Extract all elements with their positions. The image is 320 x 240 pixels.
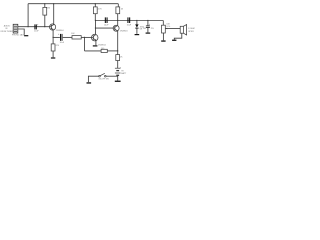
capacitor C3: [105, 17, 108, 23]
wire R6 top lead: [117, 4, 119, 7]
wire pot bottom lead: [162, 33, 164, 40]
wire pot wiper to speaker: [165, 28, 180, 30]
svg-text:+: +: [37, 24, 39, 27]
wire Q2 emitter to ground: [95, 40, 97, 45]
battery B1 9V: [115, 68, 121, 75]
wire battery to ground: [117, 76, 119, 81]
ground under C5: [146, 33, 151, 34]
ground under battery: [115, 81, 121, 82]
wire R1 top lead: [44, 4, 46, 8]
wire diode D1 top lead: [136, 21, 138, 25]
svg-text:4.7K: 4.7K: [98, 9, 103, 11]
svg-text:+: +: [120, 66, 122, 69]
junction dots: [28, 3, 149, 51]
wire emitter tap to C2: [53, 36, 60, 38]
svg-text:+: +: [149, 23, 151, 26]
svg-text:470: 470: [56, 45, 60, 47]
wire feedback drop: [84, 37, 86, 51]
ground under Q2 emitter: [93, 45, 98, 46]
svg-text:+: +: [58, 33, 60, 36]
potentiometer VR1: [162, 25, 166, 33]
resistor R7 feedback: [101, 49, 107, 52]
wire input drop from rail: [27, 4, 29, 27]
resistor R1: [43, 7, 47, 15]
svg-text:1K: 1K: [120, 56, 123, 58]
wire C5 to ground: [147, 28, 149, 33]
wire Q1 emitter column: [52, 30, 54, 44]
resistor R5: [116, 55, 120, 61]
svg-text:2N3904: 2N3904: [120, 31, 128, 33]
wire feedback horizontal left: [85, 50, 102, 52]
switch S1: [99, 73, 106, 77]
wire signal bus y=20.5: [95, 20, 163, 22]
wire R2 bottom lead: [52, 51, 54, 57]
wire R5 to battery: [117, 61, 119, 69]
wire R4 top lead: [94, 4, 96, 7]
svg-text:2N3904: 2N3904: [98, 44, 106, 46]
wire R3 to Q2 base: [81, 36, 91, 38]
svg-text:10uF: 10uF: [127, 25, 132, 27]
svg-text:10uF: 10uF: [34, 31, 39, 33]
svg-text:BATT: BATT: [121, 72, 127, 75]
capacitor C2: [60, 34, 63, 41]
svg-text:10K: 10K: [71, 33, 75, 35]
connector J1 audio input jack: [13, 24, 18, 33]
svg-text:10uF: 10uF: [104, 25, 109, 27]
transistor Q1: [50, 24, 56, 30]
svg-text:2N3904: 2N3904: [56, 30, 64, 32]
svg-text:10uF: 10uF: [60, 42, 65, 44]
capacitor C1: [34, 24, 36, 29]
wire C2 to R3: [63, 36, 72, 38]
wire V+ top rail: [28, 3, 118, 5]
ground at switch side: [87, 82, 92, 83]
svg-text:1M: 1M: [47, 7, 50, 9]
svg-text:SPKR: SPKR: [188, 31, 194, 33]
resistor R4: [93, 7, 97, 14]
capacitor C5: [146, 26, 150, 28]
wire speaker return to ground: [174, 33, 182, 39]
wire C5 top lead: [147, 21, 149, 26]
resistor R3: [72, 36, 81, 39]
svg-text:ON-OFF SW: ON-OFF SW: [98, 78, 109, 80]
transistor Q2: [91, 34, 98, 41]
speaker LS1: [180, 25, 186, 36]
wire switch to battery minus: [106, 75, 118, 77]
wire corner down to pot: [162, 21, 164, 26]
wire jack sleeve to ground: [18, 29, 24, 35]
wire feedback horizontal right: [107, 50, 117, 52]
svg-text:1K: 1K: [121, 9, 124, 11]
wire Q2 collector column: [95, 21, 97, 35]
svg-text:PHONO JACK: PHONO JACK: [12, 33, 26, 36]
ground under pot: [161, 40, 165, 41]
wire Q3 emitter column: [117, 31, 119, 54]
svg-text:100: 100: [143, 28, 146, 30]
ground under speaker: [172, 40, 176, 41]
ground under D1: [135, 34, 140, 35]
svg-text:VOL: VOL: [166, 26, 171, 28]
wire D1 to ground: [136, 29, 138, 34]
svg-text:IN: IN: [5, 28, 8, 30]
wiper arrow: [165, 28, 167, 29]
diode D1: [135, 24, 138, 28]
wire Q2 collector to Q3 base: [96, 27, 114, 29]
resistor R6: [116, 7, 120, 14]
ground at input jack: [24, 35, 28, 36]
wire Q1 collector: [53, 4, 55, 25]
capacitor C4: [127, 17, 130, 23]
svg-text:25V: 25V: [151, 28, 155, 30]
wire R1 bottom lead to base node: [44, 15, 46, 27]
resistor R2: [51, 44, 55, 51]
svg-text:FROM TUNER: FROM TUNER: [1, 31, 14, 33]
wire R4 bottom lead: [94, 14, 96, 21]
wire input line jack to Q1 base: [18, 26, 50, 28]
ground under R2: [51, 57, 55, 58]
wire switch to ground corner: [88, 76, 98, 82]
wire Q3 collector: [117, 21, 119, 26]
transistor Q3: [113, 25, 119, 31]
wire R6 bottom lead to Q3 collector node: [117, 14, 119, 21]
